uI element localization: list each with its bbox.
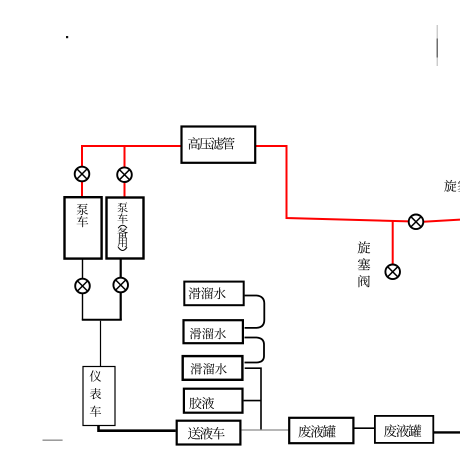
label 仪表车 (vertical) bbox=[90, 370, 102, 416]
label 泵车 (vertical) bbox=[77, 204, 89, 228]
box P1 pump truck 泵车 bbox=[65, 197, 102, 258]
box W2 waste tank 废液罐 bbox=[375, 416, 433, 443]
wire: pump box2 to valve V4 bbox=[120, 259, 122, 278]
label 废液罐 #1 bbox=[298, 425, 335, 438]
label 泵车（备用） (vertical) bbox=[117, 202, 128, 250]
wire red: right of valve V5 to edge bbox=[423, 220, 460, 222]
box P2 backup pump truck 泵车（备用） bbox=[107, 198, 144, 259]
stray vertical tick top-right bbox=[436, 25, 438, 66]
label 高压滤管 bbox=[188, 137, 235, 149]
wire: water tank3 to drain bus bbox=[245, 368, 261, 429]
valve V3 (pump1 suction) bbox=[75, 279, 90, 294]
wire: stray gray dash bottom-left bbox=[43, 439, 63, 441]
wire: hose water tank2 to tank3 (bracket) bbox=[245, 338, 265, 363]
wire: gel tank to drain bus bbox=[244, 400, 261, 402]
box U1 high-pressure filter pipe 高压滤管 bbox=[182, 127, 256, 163]
wire: valve V3 down bbox=[82, 293, 84, 320]
box T1 slick water tank 滑溜水 bbox=[184, 282, 243, 306]
box T5 liquid feed truck 送液车 bbox=[177, 421, 241, 445]
label 送液车 bbox=[188, 427, 225, 440]
label 旋塞阀 (right edge, clipped) bbox=[444, 180, 460, 192]
wire: valve V4 down bbox=[120, 292, 122, 320]
wire red: valve V2 to pump box2 bbox=[124, 182, 126, 198]
box T2 slick water tank 滑溜水 bbox=[184, 320, 243, 343]
label 滑溜水 #3 bbox=[191, 363, 227, 374]
valve V5 wellhead plug valve 旋塞阀 bbox=[409, 215, 424, 230]
label 旋塞阀 (vertical, bleed valve) bbox=[358, 241, 371, 287]
label 胶液 bbox=[189, 397, 214, 409]
wire red: drop to valve V2 bbox=[124, 146, 126, 167]
wire: instrument truck to feed truck (thick L) bbox=[99, 426, 176, 431]
stray dot top-left bbox=[66, 36, 68, 38]
wire: waste tank2 to right edge bbox=[434, 431, 460, 433]
wire: feed truck to waste tank1 (gray) bbox=[242, 429, 289, 431]
wire red: filter box to wellhead run bbox=[256, 146, 409, 221]
wire red: valve V1 to pump box1 bbox=[81, 181, 83, 197]
wire: hose water tank1 to tank2 (bracket) bbox=[245, 296, 265, 328]
wire: manifold to instrument truck bbox=[100, 321, 102, 366]
valve V1 (plug valve to pump1) bbox=[75, 167, 90, 182]
label 滑溜水 #1 bbox=[189, 287, 226, 299]
box W1 waste tank 废液罐 bbox=[289, 418, 353, 443]
wire: manifold join bbox=[82, 319, 122, 321]
valve V4 (pump2 suction) bbox=[113, 278, 128, 293]
label 滑溜水 #2 bbox=[190, 328, 226, 339]
valve V6 bleed plug valve 旋塞阀 bbox=[385, 265, 400, 280]
label 废液罐 #2 bbox=[384, 424, 421, 437]
box D1 instrument truck 仪表车 bbox=[83, 367, 115, 426]
box T4 gel tank 胶液 bbox=[184, 389, 243, 413]
wire red: drop to bleed valve V6 bbox=[392, 221, 394, 265]
wire: pump box1 to valve V3 bbox=[82, 259, 84, 279]
wire: waste tank1 to waste tank2 bbox=[354, 427, 374, 429]
valve V2 (plug valve to pump2) bbox=[117, 167, 132, 182]
wire red: header to pump valves (x82 drop + top run to filter box) bbox=[82, 146, 181, 167]
box T3 slick water tank 滑溜水 bbox=[183, 356, 243, 380]
